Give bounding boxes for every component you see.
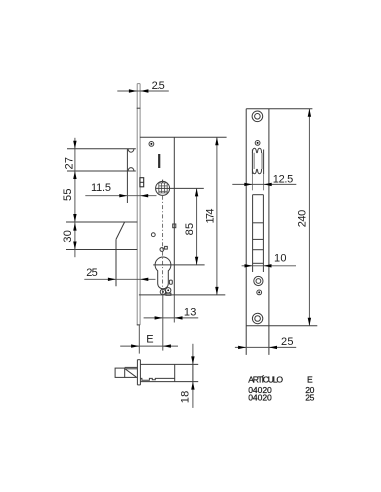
dim E line [120,345,178,347]
faceplate top cap [137,83,140,85]
follower centerline stub above [162,180,164,183]
dim 240 line [308,109,310,326]
latch opening right edge [263,150,265,175]
faceplate bar caps [137,359,140,361]
case top edge (ext for 18) [140,363,198,365]
svg-text:55: 55 [62,189,74,202]
faceplate bottom edge (ext for 240) [246,325,317,327]
deadbolt segment line 1 [253,222,264,224]
bottom screw hole [252,313,262,323]
dim 18 lower line [192,382,194,408]
dim 11.5 arrows [119,194,127,197]
follower horizontal centerline / 85-dim top extension [156,187,204,189]
dim 18 upper line [192,344,194,365]
dim 25 arrows [108,278,116,281]
follower (square spindle hub) circle [156,181,170,195]
vertical slot in case [158,154,160,168]
latch bevel bottom line [125,376,138,378]
svg-text:E: E [307,375,313,385]
svg-text:240: 240 [296,210,308,228]
30 bottom arrow [73,242,76,250]
left dim chain line 27/55/30 [74,138,76,257]
dim 2.5 line [117,90,169,92]
faceplate bar left line [136,360,138,385]
latch bolt face [126,149,128,203]
small detail circle + square near centerline [160,248,164,252]
svg-text:11.5: 11.5 [91,182,111,194]
svg-text:85: 85 [184,223,196,236]
deadbolt front face [115,239,117,286]
lock case bottom edge (extends right as ext line for 174) [139,294,225,296]
latch retainer block behind faceplate [140,178,144,187]
deadbolt opening top [253,194,264,196]
middle screw hole [254,276,263,285]
dim 240 arrows [308,109,311,117]
dim E arrows [131,344,139,347]
latch head front: bottom double-curve [252,169,261,174]
faceplate bar right line [139,360,141,385]
svg-text:18: 18 [179,391,191,404]
deadbolt opening left edge [252,195,254,272]
latch bevel top lines [125,366,138,368]
deadbolt bottom ext line (for 30) [66,249,137,251]
deadbolt segment line 3 [253,249,264,251]
dim 85 line [196,188,198,264]
latch bolt tip box [115,368,125,377]
latch head front: inner sides [253,153,255,169]
latch head front: top double-curve [252,148,261,153]
cylinder cam detail [169,280,172,284]
ext line case back below case [173,295,175,323]
deadbolt front bottom [253,262,264,264]
faceplate front view left edge [245,109,247,355]
latch head top arc [128,149,134,152]
dim 85 arrows [195,188,198,196]
dim 2.5 arrows [129,89,137,92]
dim 12.5 arrows [244,183,252,186]
case bottom screw left [160,289,165,294]
small screw above latch [255,141,260,146]
dim 10 arrows [245,264,253,267]
27 bottom / 55 top arrow [73,171,76,179]
svg-text:10: 10 [274,253,287,265]
follower square grid [159,183,167,193]
svg-text:27: 27 [64,157,76,170]
ext line cylinder axis below case [162,290,164,351]
case inner vertical line [174,364,176,381]
dim 174 line [216,137,218,295]
top screw hole [252,111,263,122]
case bottom edge (ext for 18) [140,381,198,383]
svg-text:25: 25 [86,267,98,279]
svg-text:ARTÍCULO: ARTÍCULO [248,375,283,385]
dim 25 arrows [238,346,246,349]
faceplate top edge (ext for 240) [246,108,312,110]
cylinder horizontal centerline / 85-dim bottom extension [153,264,204,266]
faceplate side view (front line) [136,84,138,325]
55 bottom arrow [73,214,76,222]
dim 25 (faceplate width) line [235,346,296,348]
deadbolt chamfer [116,222,125,239]
svg-text:25: 25 [281,336,294,348]
dim 25 (deadbolt throw) line [84,278,155,280]
deadbolt segment line 2 [253,238,264,240]
faceplate side view (back line) [139,84,141,325]
latch bolt bottom line (also ext line for 27/55) [67,170,136,172]
case inner bottom line with notches [140,378,174,380]
faceplate bottom cap [137,324,140,326]
latch bolt top line (also ext line for 27) [67,148,136,150]
dim 13 line [144,317,199,319]
vertical dash-dot centerline follower to cylinder [162,196,164,287]
svg-text:12.5: 12.5 [273,173,294,185]
svg-text:2.5: 2.5 [152,80,165,92]
small rect detail on case back edge [173,224,176,228]
euro profile cylinder hole [155,257,171,289]
faceplate front view right edge [268,109,270,355]
case top fixing screw [149,142,154,147]
latch opening left edge [251,150,253,175]
dim 18 arrows [191,356,194,364]
deadbolt top line (also ext line for 30/55) [66,221,137,223]
deadbolt opening right edge [262,195,264,272]
ext line faceplate below (for E) [138,325,140,354]
case bottom screw right [166,288,171,293]
latch head bottom arc [128,168,134,171]
svg-text:E: E [146,334,153,346]
case back edge [192,364,194,381]
svg-text:30: 30 [62,230,74,243]
lock case back edge [173,137,175,295]
lock case top edge (extends right as ext line for 174) [140,136,227,138]
faceplate joint tick [137,107,141,109]
dim 11.5 line [85,195,156,197]
dim 10 line [242,265,296,267]
svg-text:13: 13 [184,306,197,318]
small hole in case [151,233,155,237]
30 top arrow [73,223,76,231]
svg-text:174: 174 [205,209,217,224]
dim 174 arrows [215,137,218,145]
small block under screws [166,293,171,295]
small screw below [257,290,262,295]
svg-text:25: 25 [305,393,314,403]
dim 13 arrows [155,316,163,319]
27 top arrow [73,141,76,149]
svg-text:04020: 04020 [248,393,272,403]
dim 12.5 line [232,183,296,185]
latch bevel diagonal [125,369,136,377]
